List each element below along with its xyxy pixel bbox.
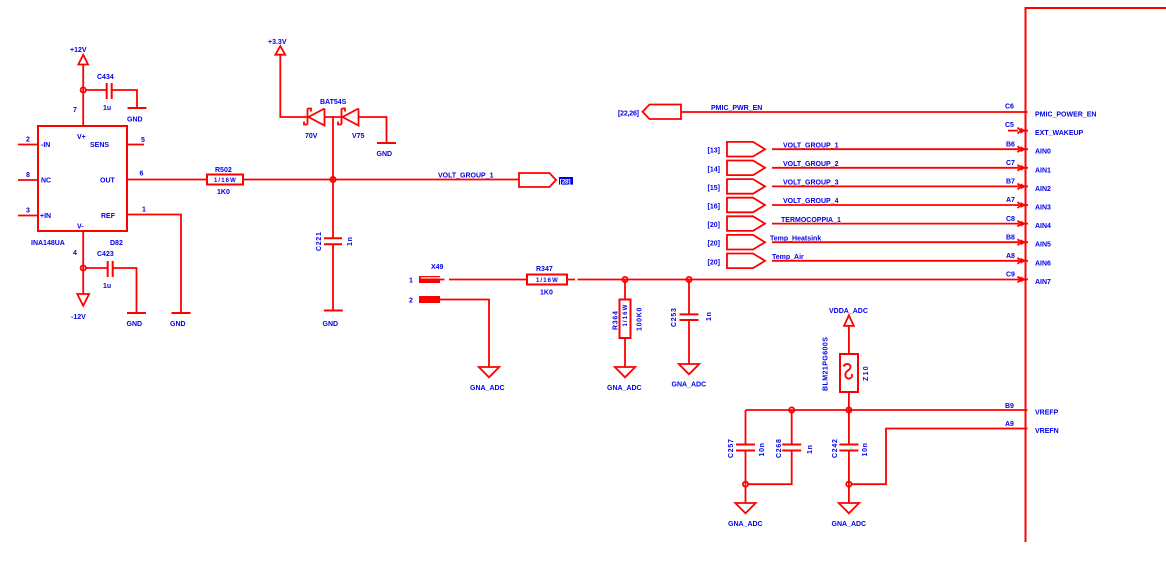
svg-text:X49: X49 [431,264,444,271]
diode V75 (BAT54S right) [338,109,365,141]
wire C242 vertical [848,410,850,484]
pin B8 AIN5 [1006,234,1051,248]
wire junction to C268 [791,410,793,445]
svg-text:AIN5: AIN5 [1035,242,1051,249]
svg-text:[15]: [15] [708,185,720,192]
net label VOLT_GROUP_3 [783,180,839,187]
wire junction to C253 [688,280,690,315]
svg-text:1n: 1n [807,444,814,454]
svg-text:GNA_ADC: GNA_ADC [470,385,505,392]
svg-text:1/16W: 1/16W [214,178,237,184]
power +3.3V [268,39,287,55]
svg-text:2: 2 [409,298,413,305]
svg-text:+12V: +12V [70,47,87,54]
svg-text:C434: C434 [97,74,114,81]
svg-text:AIN2: AIN2 [1035,186,1051,193]
svg-text:R502: R502 [215,167,232,174]
wire +3.3V to diodes [280,55,307,117]
svg-text:C9: C9 [1006,272,1015,279]
connector X49 [409,264,444,305]
svg-text:1K0: 1K0 [540,290,553,297]
node junction R364 [622,277,627,282]
node junction Z10/VREFP [846,407,851,412]
net label VOLT_GROUP_4 [783,198,839,205]
ground GNA_ADC (C253) [672,364,707,389]
svg-text:1u: 1u [103,105,111,112]
svg-text:C5: C5 [1005,122,1014,129]
pin 6 OUT wire to R502 [127,171,207,180]
ground GND (C423) [127,313,147,328]
svg-text:1n: 1n [347,236,354,246]
wire C434 to GND [113,90,138,108]
svg-text:1u: 1u [103,283,111,290]
net label Temp_Heatsink [770,235,821,242]
net label TERMOCOPPIA_1 [781,217,841,224]
svg-text:C423: C423 [97,251,114,258]
svg-text:C6: C6 [1005,104,1014,111]
svg-text:OUT: OUT [100,178,116,185]
svg-text:C221: C221 [316,231,323,251]
pin 4 V- wire [73,231,83,294]
svg-text:V75: V75 [352,133,365,140]
svg-text:R347: R347 [536,266,553,273]
wire VREFN net [852,429,1028,485]
pin B7 AIN2 [1006,179,1051,193]
power -12V [71,294,89,321]
svg-text:VOLT_GROUP_1: VOLT_GROUP_1 [438,173,494,180]
svg-text:1K0: 1K0 [217,189,230,196]
svg-text:GND: GND [127,321,143,328]
pin 3 +IN stub [18,208,38,216]
resistor R364 [613,300,644,339]
svg-text:1: 1 [142,207,146,214]
svg-text:PMIC_PWR_EN: PMIC_PWR_EN [711,105,762,112]
svg-text:AIN7: AIN7 [1035,279,1051,286]
svg-text:A8: A8 [1006,253,1015,260]
svg-text:[20]: [20] [708,241,720,248]
pin C8 AIN4 [1006,216,1051,230]
svg-text:GNA_ADC: GNA_ADC [672,382,707,389]
wire V75 anode to GND [359,117,387,143]
svg-text:V+: V+ [77,134,86,141]
pin 5 SENS stub [127,137,145,145]
svg-text:5: 5 [141,137,145,144]
svg-text:A9: A9 [1005,421,1014,428]
wire VREFP down to C257 [745,410,747,445]
power +12V [70,47,88,65]
wire +12V to V+ pin [82,65,84,127]
svg-text:AIN4: AIN4 [1035,223,1051,230]
svg-text:AIN0: AIN0 [1035,149,1051,156]
off-page connector [20] Temp_Heatsink [708,235,766,250]
ground GNA_ADC (C242) [832,503,867,528]
svg-text:1: 1 [409,278,413,285]
svg-text:C257: C257 [728,438,735,458]
svg-text:[20]: [20] [708,222,720,229]
node junction C253 [686,277,691,282]
svg-text:C268: C268 [776,438,783,458]
off-page connector [15] VOLT_GROUP_3 [708,179,766,194]
svg-text:V-: V- [77,224,84,231]
pin A7 AIN3 [1006,197,1051,211]
svg-text:AIN1: AIN1 [1035,167,1051,174]
ground GND (REF) [170,313,191,328]
ferrite bead Z10 BLM21PG600S [823,337,871,392]
pin 2 -IN stub [18,137,38,145]
wire VOLT_GROUP_3 [772,185,1019,187]
wire VOLT_GROUP_1 [772,148,1019,150]
wire VOLT_GROUP_4 [772,204,1019,206]
pin A8 AIN6 [1006,253,1051,267]
pin B9 VREFP [1005,403,1059,417]
wire X49 pin1 to R347 [440,279,527,281]
capacitor C434 [97,74,114,112]
resistor R502 [207,167,243,196]
svg-text:70V: 70V [305,133,318,140]
off-page connector [13] VOLT_GROUP_1 [708,142,766,157]
svg-text:100K0: 100K0 [637,307,644,331]
svg-text:B8: B8 [1006,234,1015,241]
svg-text:[28]: [28] [560,178,571,185]
ground GND (C434) [127,108,147,124]
wire PMIC_PWR_EN [681,111,1028,113]
capacitor C221 [316,231,354,251]
wire Z10 to VREFP net [848,392,850,410]
net label VOLT_GROUP_2 [783,161,839,168]
net label VOLT_GROUP_1 [783,142,839,149]
capacitor C257 [728,438,766,458]
wire VDDA_ADC to Z10 [848,326,850,354]
svg-text:C8: C8 [1006,216,1015,223]
svg-text:C242: C242 [832,438,839,458]
wire C257 to ground [745,484,747,503]
wire between diodes [325,116,342,118]
ground GND (BAT54S) [377,143,397,158]
wire Temp_Air [772,260,1019,262]
off-page connector VOLT_GROUP_1 [28] [519,173,573,187]
wire R502 to tag VOLT_GROUP_1 [243,179,519,181]
diode 70V (BAT54S left) [304,99,347,140]
svg-text:[20]: [20] [708,259,720,266]
svg-text:C253: C253 [671,307,678,327]
svg-text:4: 4 [73,250,77,257]
net label VOLT_GROUP_1 [438,173,494,180]
svg-text:VREFN: VREFN [1035,428,1059,435]
wire VOLT_GROUP_2 [772,167,1019,169]
off-page connector [14] VOLT_GROUP_2 [708,161,766,176]
svg-text:8: 8 [26,172,30,179]
svg-text:SENS: SENS [90,142,109,149]
pin C7 AIN1 [1006,160,1051,174]
svg-text:GND: GND [377,151,393,158]
ground GNA_ADC (R364) [607,367,642,392]
wire R364 to ground [624,338,626,367]
svg-text:BAT54S: BAT54S [320,99,347,106]
wire Temp_Heatsink [772,241,1019,243]
svg-text:7: 7 [73,107,77,114]
wire TERMOCOPPIA_1 [772,223,1019,225]
svg-text:VDDA_ADC: VDDA_ADC [829,308,868,315]
svg-text:PMIC_POWER_EN: PMIC_POWER_EN [1035,112,1096,119]
svg-text:VREFP: VREFP [1035,410,1059,417]
wire C221 to GND [332,244,334,310]
capacitor C242 [832,438,869,458]
svg-text:GNA_ADC: GNA_ADC [832,521,867,528]
svg-text:+IN: +IN [40,213,51,220]
svg-text:10n: 10n [862,442,869,456]
svg-text:GNA_ADC: GNA_ADC [607,385,642,392]
svg-text:B9: B9 [1005,403,1014,410]
pin A9 VREFN [1005,421,1059,435]
svg-text:-12V: -12V [71,314,86,321]
pin 7 label [73,107,77,114]
svg-text:10n: 10n [759,442,766,456]
svg-text:BLM21PG600S: BLM21PG600S [823,337,830,391]
wire R347 to AIN7 pin [567,279,1025,281]
pin B6 AIN0 [1006,141,1051,155]
ground GNA_ADC (C257) [728,503,763,528]
svg-text:AIN6: AIN6 [1035,260,1051,267]
svg-text:GND: GND [170,321,186,328]
wire X49 pin2 to ground [440,300,489,368]
off-page connector [20] Temp_Air [708,254,766,269]
capacitor C253 [671,307,713,327]
svg-text:A7: A7 [1006,197,1015,204]
off-page connector [16] VOLT_GROUP_4 [708,198,766,213]
node junction C242 bottom [846,482,851,487]
svg-text:NC: NC [41,178,51,185]
net label Temp_Air [772,254,804,261]
svg-text:Z10: Z10 [863,365,870,381]
svg-text:R364: R364 [613,310,620,330]
power VDDA_ADC [829,308,868,326]
svg-text:[13]: [13] [708,148,720,155]
wire VREFP net [746,409,1028,411]
wire C242 to ground [848,484,850,503]
svg-text:GND: GND [323,321,339,328]
off-page connector [22,26] PMIC_PWR_EN [618,105,681,120]
svg-text:B6: B6 [1006,141,1015,148]
pin 1 REF wire to GND [127,207,181,314]
svg-text:1/16W: 1/16W [536,278,559,284]
wire diodes junction down to OUT net [332,117,334,238]
svg-text:C7: C7 [1006,160,1015,167]
svg-text:GND: GND [127,117,143,124]
node junction C268/VREFP [789,407,794,412]
svg-text:INA148UA: INA148UA [31,240,65,247]
svg-text:D82: D82 [110,240,123,247]
node V- junction [81,265,86,270]
svg-text:+3.3V: +3.3V [268,39,287,46]
svg-text:6: 6 [140,171,144,178]
wire C423 to GND [114,268,137,313]
ground GNA_ADC (X49) [470,367,505,392]
wire C253 to ground [688,320,690,364]
svg-text:REF: REF [101,213,116,220]
svg-text:2: 2 [26,137,30,144]
pin 8 NC stub [18,172,38,180]
node V+ junction [81,87,86,92]
wire junction to C434 [86,89,106,91]
node junction C257 bottom [743,482,748,487]
pin C6 PMIC_POWER_EN [1005,104,1096,119]
svg-text:-IN: -IN [41,142,50,149]
svg-text:[14]: [14] [708,166,720,173]
node junction OUT/BAT54S/C221 [330,177,335,182]
pin C9 AIN7 [1006,272,1051,286]
op-amp U D82 INA148UA body [31,126,127,247]
resistor R347 [527,266,567,297]
wire junction to R364 [624,280,626,300]
svg-text:3: 3 [26,208,30,215]
svg-text:GNA_ADC: GNA_ADC [728,521,763,528]
pin C5 EXT_WAKEUP [1005,122,1084,137]
off-page connector [20] TERMOCOPPIA_1 [708,216,766,231]
capacitor C423 [97,251,114,290]
svg-text:B7: B7 [1006,179,1015,186]
svg-text:AIN3: AIN3 [1035,205,1051,212]
wire junction to C423 [86,267,107,269]
net label PMIC_PWR_EN [711,105,762,112]
ground GND (C221) [323,311,343,329]
svg-text:[22,26]: [22,26] [618,111,639,118]
svg-text:EXT_WAKEUP: EXT_WAKEUP [1035,130,1084,137]
capacitor C268 [776,438,814,458]
IC U1 border [1026,8,1166,542]
svg-text:1n: 1n [706,311,713,321]
svg-text:1/16W: 1/16W [623,304,629,327]
wire C257/C268 bottoms joined [746,451,792,485]
svg-text:[16]: [16] [708,204,720,211]
